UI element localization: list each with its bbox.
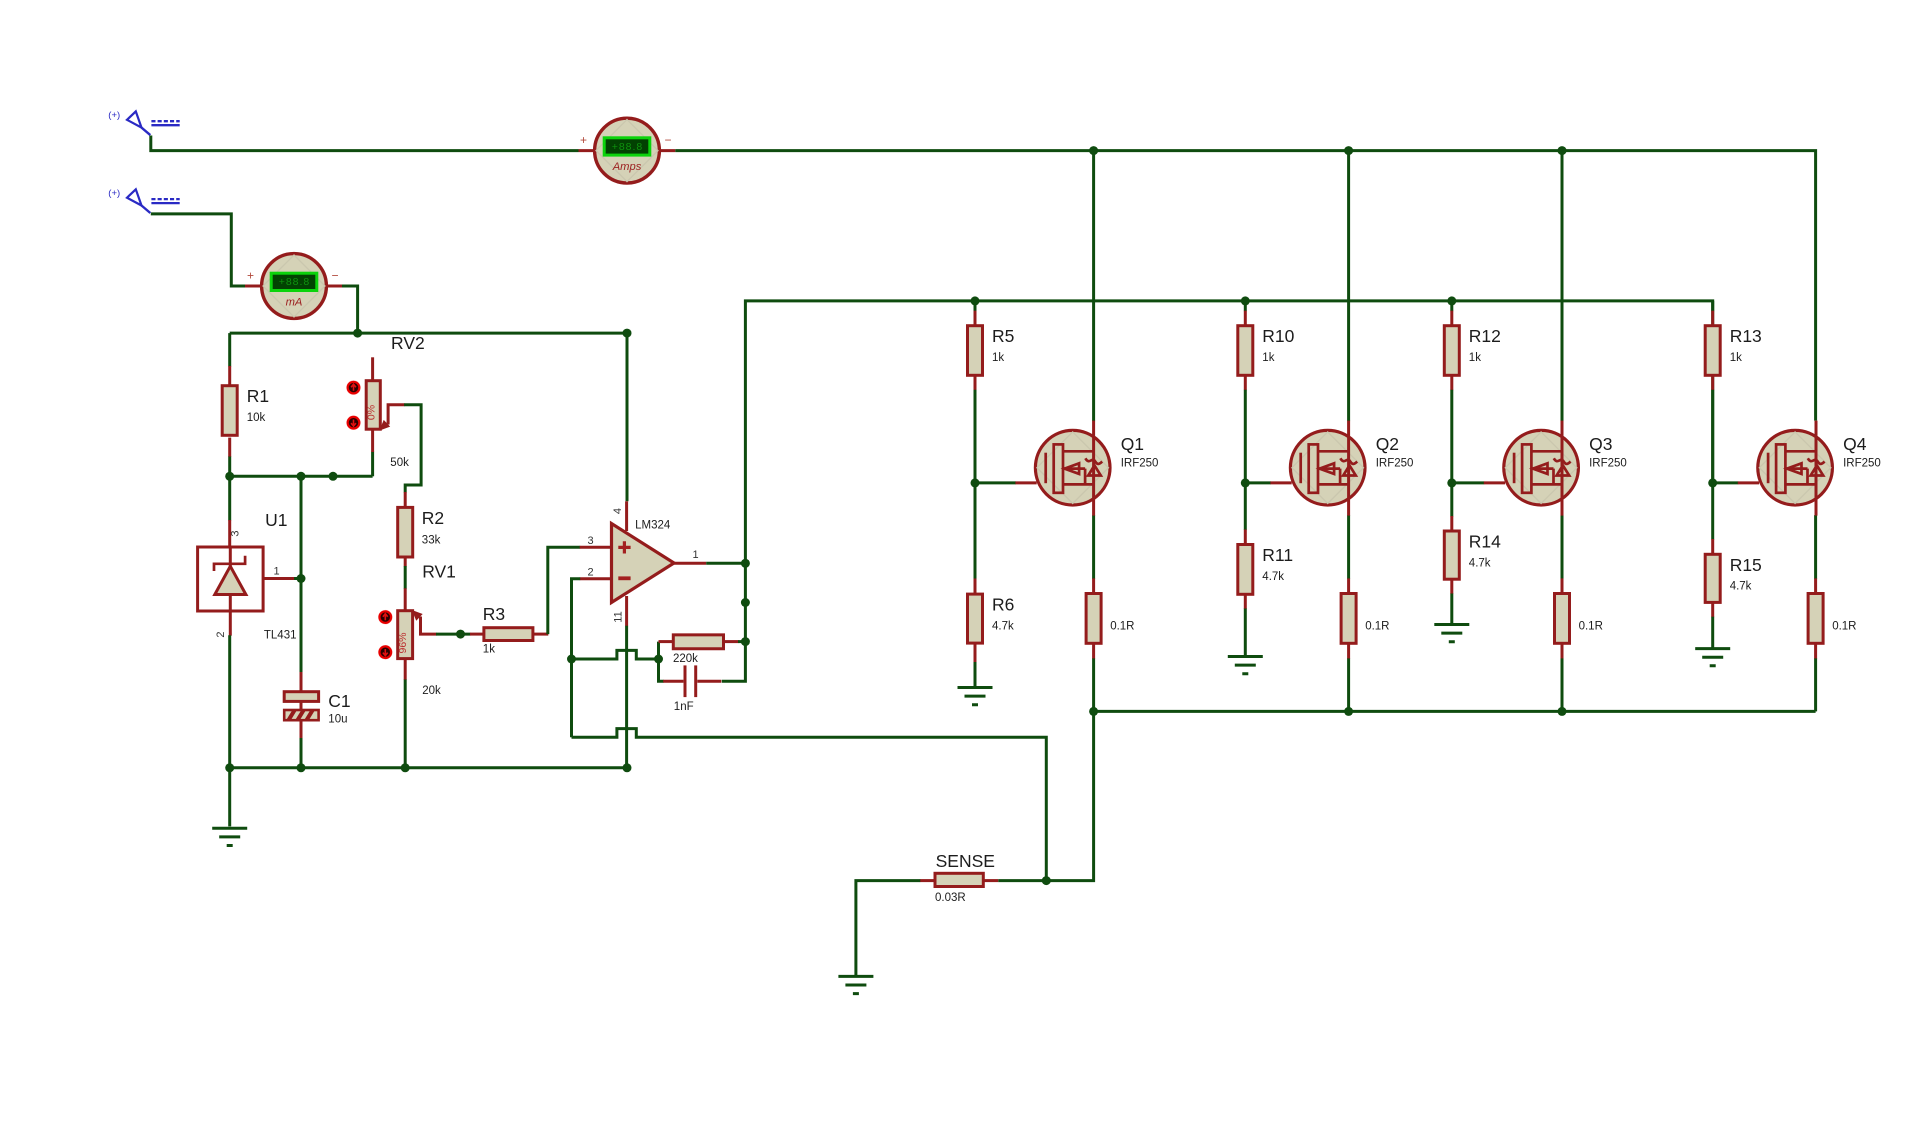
svg-text:0.1R: 0.1R	[1110, 620, 1134, 632]
svg-text:R6: R6	[992, 595, 1014, 615]
svg-text:1k: 1k	[483, 644, 495, 656]
svg-text:+88.8: +88.8	[279, 276, 311, 288]
svg-text:0.1R: 0.1R	[1579, 620, 1603, 632]
svg-text:10u: 10u	[328, 714, 347, 726]
svg-text:4: 4	[612, 508, 624, 514]
svg-text:4.7k: 4.7k	[1262, 571, 1284, 583]
svg-text:3: 3	[230, 530, 242, 536]
svg-text:−: −	[664, 133, 671, 147]
svg-text:+: +	[247, 269, 254, 283]
svg-text:U1: U1	[265, 510, 287, 530]
svg-text:1k: 1k	[1469, 352, 1481, 364]
svg-text:RV2: RV2	[391, 333, 425, 353]
svg-text:mA: mA	[286, 297, 303, 309]
svg-text:SENSE: SENSE	[936, 851, 995, 871]
svg-text:220k: 220k	[673, 653, 698, 665]
svg-text:11: 11	[613, 611, 625, 622]
svg-text:R13: R13	[1730, 326, 1762, 346]
svg-text:R15: R15	[1730, 555, 1762, 575]
svg-text:0.1R: 0.1R	[1832, 620, 1856, 632]
svg-text:1: 1	[273, 566, 279, 578]
svg-text:4.7k: 4.7k	[1469, 557, 1491, 569]
svg-text:+88.8: +88.8	[612, 141, 644, 153]
svg-text:−: −	[331, 269, 338, 283]
svg-text:33k: 33k	[422, 535, 441, 547]
svg-text:IRF250: IRF250	[1589, 458, 1627, 470]
svg-text:IRF250: IRF250	[1376, 458, 1414, 470]
svg-text:R1: R1	[247, 386, 269, 406]
svg-text:Q1: Q1	[1121, 434, 1144, 454]
svg-text:IRF250: IRF250	[1121, 458, 1159, 470]
svg-text:10k: 10k	[247, 412, 266, 424]
svg-text:R10: R10	[1262, 326, 1294, 346]
svg-text:1: 1	[692, 549, 698, 561]
svg-text:+: +	[580, 133, 587, 147]
svg-text:Q4: Q4	[1843, 434, 1867, 454]
svg-text:96%: 96%	[397, 632, 409, 653]
svg-text:IRF250: IRF250	[1843, 458, 1881, 470]
svg-text:3: 3	[587, 535, 593, 547]
svg-text:2: 2	[215, 631, 227, 637]
svg-text:1k: 1k	[1730, 352, 1742, 364]
svg-text:2: 2	[587, 567, 593, 579]
svg-text:(+): (+)	[108, 188, 120, 199]
svg-text:0%: 0%	[365, 405, 377, 420]
svg-text:Q3: Q3	[1589, 434, 1612, 454]
svg-text:0.1R: 0.1R	[1365, 620, 1389, 632]
svg-text:LM324: LM324	[635, 520, 671, 532]
svg-text:Q2: Q2	[1376, 434, 1399, 454]
svg-text:1k: 1k	[992, 352, 1004, 364]
svg-text:C1: C1	[328, 691, 350, 711]
svg-text:50k: 50k	[390, 457, 409, 469]
svg-text:1k: 1k	[1262, 352, 1274, 364]
svg-text:R12: R12	[1469, 326, 1501, 346]
svg-text:R3: R3	[483, 604, 505, 624]
svg-text:4.7k: 4.7k	[1730, 581, 1752, 593]
svg-text:R5: R5	[992, 326, 1014, 346]
svg-text:(+): (+)	[108, 110, 120, 121]
svg-text:0.03R: 0.03R	[935, 892, 966, 904]
svg-text:Amps: Amps	[612, 161, 642, 173]
svg-text:RV1: RV1	[422, 562, 456, 582]
svg-text:R11: R11	[1262, 545, 1293, 565]
svg-text:20k: 20k	[422, 685, 441, 697]
svg-text:R14: R14	[1469, 532, 1501, 552]
svg-text:TL431: TL431	[264, 630, 297, 642]
svg-text:R2: R2	[422, 508, 444, 528]
svg-text:4.7k: 4.7k	[992, 620, 1014, 632]
svg-text:1nF: 1nF	[674, 701, 694, 713]
